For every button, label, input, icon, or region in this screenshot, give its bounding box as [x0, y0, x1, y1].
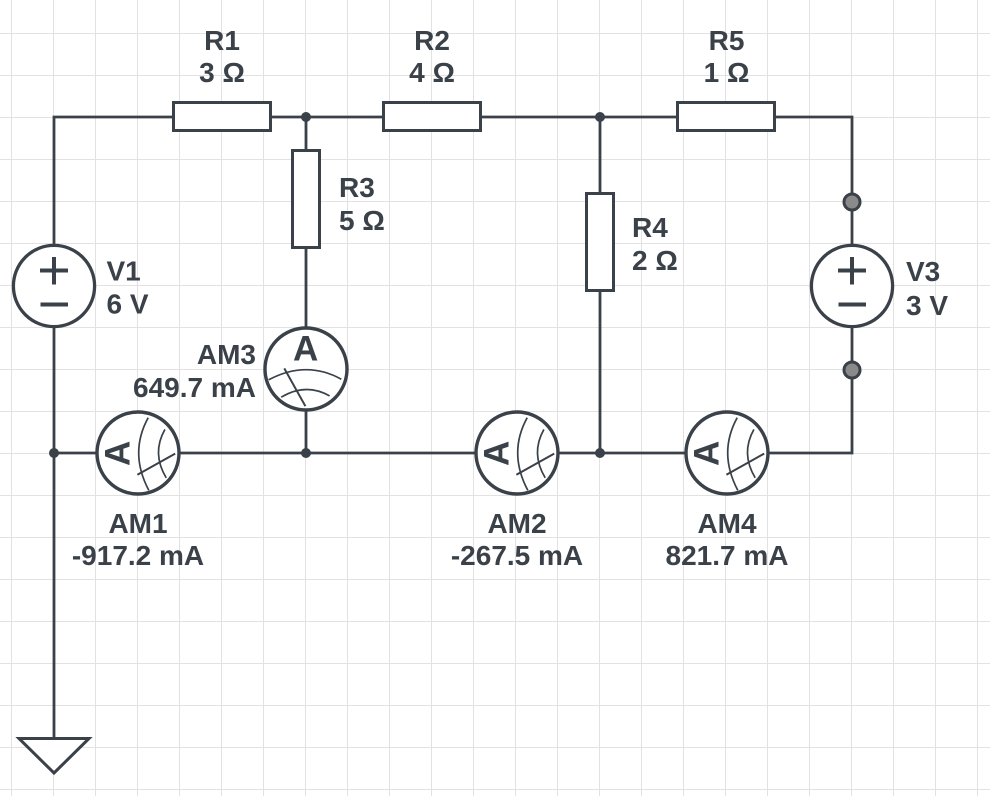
svg-text:R2: R2	[414, 25, 450, 56]
svg-text:V1: V1	[107, 256, 141, 287]
svg-text:-917.2 mA: -917.2 mA	[72, 540, 204, 571]
svg-text:3 Ω: 3 Ω	[199, 57, 245, 88]
svg-text:AM1: AM1	[108, 508, 167, 539]
svg-text:R1: R1	[204, 25, 240, 56]
svg-text:R5: R5	[709, 25, 745, 56]
svg-text:-267.5 mA: -267.5 mA	[451, 540, 583, 571]
svg-text:R4: R4	[632, 212, 668, 243]
svg-text:2 Ω: 2 Ω	[632, 245, 678, 276]
svg-text:3 V: 3 V	[906, 290, 948, 321]
svg-text:AM3: AM3	[197, 339, 256, 370]
svg-text:821.7 mA: 821.7 mA	[666, 540, 789, 571]
svg-text:V3: V3	[906, 256, 940, 287]
svg-text:1 Ω: 1 Ω	[704, 57, 750, 88]
svg-text:6 V: 6 V	[107, 289, 149, 320]
svg-text:5 Ω: 5 Ω	[339, 205, 385, 236]
svg-text:R3: R3	[339, 172, 375, 203]
svg-text:649.7 mA: 649.7 mA	[133, 372, 256, 403]
svg-text:AM2: AM2	[487, 508, 546, 539]
svg-text:4 Ω: 4 Ω	[409, 57, 455, 88]
svg-text:AM4: AM4	[697, 508, 757, 539]
